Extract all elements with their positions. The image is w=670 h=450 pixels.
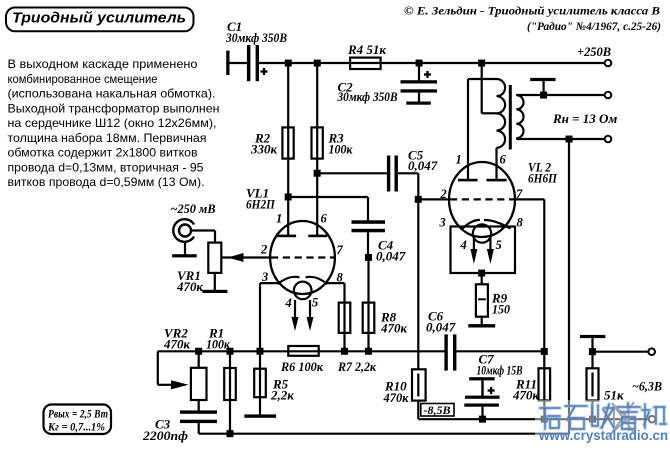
svg-text:6Н2П: 6Н2П xyxy=(246,197,276,212)
VL2 heater arrow pin5 xyxy=(487,236,494,264)
node junction R8 bottom xyxy=(365,348,372,355)
node junction VL1 pin7/R8 xyxy=(365,254,372,261)
svg-text:30мкф 350В: 30мкф 350В xyxy=(337,89,398,104)
svg-text:толщина набора 18мм. Первичная: толщина набора 18мм. Первичная xyxy=(8,131,207,145)
VL1 heater arrow pin4 xyxy=(292,300,299,331)
svg-text:витков провода d=0,59мм (13 Ом: витков провода d=0,59мм (13 Ом). xyxy=(8,175,205,189)
terminal heater top xyxy=(648,348,655,355)
node junction C7 bottom xyxy=(479,416,486,423)
svg-text:3: 3 xyxy=(439,216,446,230)
node junction C1/R2 xyxy=(285,60,292,67)
svg-text:470к: 470к xyxy=(380,321,407,336)
capacitor C3 xyxy=(142,400,217,443)
svg-text:1: 1 xyxy=(456,153,462,167)
svg-text:0,047: 0,047 xyxy=(426,320,456,335)
svg-text:провода d=0,13мм, вторичная -: провода d=0,13мм, вторичная - 95 xyxy=(8,160,204,174)
tube VL2 envelope xyxy=(449,160,558,238)
wire node to R8 xyxy=(367,258,369,352)
svg-text:6: 6 xyxy=(500,153,507,167)
label 6.3V xyxy=(632,379,662,394)
resistor R11 xyxy=(512,368,550,402)
transformer secondary winding xyxy=(516,95,523,138)
wire VR1 to ground xyxy=(214,273,216,290)
transformer primary winding xyxy=(497,79,506,148)
resistor R8 xyxy=(363,303,408,336)
svg-text:комбинированное смещение: комбинированное смещение xyxy=(8,72,158,86)
svg-text:470к: 470к xyxy=(383,390,409,405)
node junction R7 bottom xyxy=(341,348,348,355)
svg-text:0,047: 0,047 xyxy=(376,249,406,264)
ground bar under C2 xyxy=(406,102,431,105)
tube VL1 envelope xyxy=(246,186,335,295)
resistor R5 xyxy=(254,351,294,414)
resistor R3 xyxy=(312,127,353,158)
watermark overlay xyxy=(535,400,670,450)
wire cathode feedback rail xyxy=(158,350,545,352)
chassis bar above secondary xyxy=(530,78,555,95)
node junction secondary top xyxy=(540,92,547,99)
wire primary top to VL2 pin1 xyxy=(468,79,497,179)
transformer core xyxy=(509,85,512,150)
svg-text:2: 2 xyxy=(440,187,447,201)
watermark url text xyxy=(538,428,668,443)
svg-text:~6,3В: ~6,3В xyxy=(632,379,662,394)
wire to C5 xyxy=(317,172,387,174)
svg-text:6Н6П: 6Н6П xyxy=(528,171,558,186)
svg-text:Кг = 0,7...1%: Кг = 0,7...1% xyxy=(47,420,105,434)
svg-text:R6 100к: R6 100к xyxy=(280,359,323,374)
node junction R3/C5 xyxy=(314,170,321,177)
wire R3 anode branch xyxy=(316,63,318,236)
wire C4 to grid2 node xyxy=(367,232,369,257)
svg-text:R7 2,2к: R7 2,2к xyxy=(337,359,376,374)
resistor R1 xyxy=(206,326,236,434)
node junction heater tap xyxy=(589,348,596,355)
node junction VL2 grid1 xyxy=(415,196,422,203)
node junction R2/C4 xyxy=(285,193,292,200)
VL1 heater arrow pin5 xyxy=(307,300,314,331)
wire feedback from secondary xyxy=(568,139,570,434)
ground bar under jack xyxy=(172,254,197,257)
svg-text:~250 мВ: ~250 мВ xyxy=(171,201,216,216)
label box output power xyxy=(44,405,112,435)
svg-text:3: 3 xyxy=(261,270,268,284)
svg-text:470к: 470к xyxy=(176,279,203,294)
title box xyxy=(6,8,194,32)
svg-text:Выходной трансформатор выполне: Выходной трансформатор выполнен xyxy=(8,101,220,115)
capacitor C5 xyxy=(387,148,438,192)
header credit xyxy=(404,5,661,34)
watermark logo diode xyxy=(611,402,634,434)
terminal +250V xyxy=(577,44,611,66)
svg-text:-8,5В: -8,5В xyxy=(424,403,451,417)
VL1 anode plate pin6 xyxy=(308,235,327,238)
svg-text:0,047: 0,047 xyxy=(408,158,438,173)
resistor R4 xyxy=(347,42,386,69)
VL1 anode plate pin1 xyxy=(277,235,296,238)
wire R10 to bias rail xyxy=(417,401,419,420)
resistor R10 xyxy=(383,369,426,405)
node junction R1 top xyxy=(226,348,233,355)
wire R2 anode branch xyxy=(287,63,289,236)
VL2 cathode arcs xyxy=(463,220,511,229)
terminal output bottom xyxy=(605,136,612,143)
node junction R5 top xyxy=(256,348,263,355)
svg-text:4: 4 xyxy=(460,238,467,252)
svg-text:R4 51к: R4 51к xyxy=(347,42,386,57)
node junction VL2 cathode box bottom xyxy=(478,270,485,277)
svg-text:5: 5 xyxy=(312,296,318,310)
svg-text:В выходном каскаде применено: В выходном каскаде применено xyxy=(8,57,198,71)
VL1 heater circle xyxy=(294,282,312,300)
wire secondary bottom output xyxy=(516,138,605,140)
svg-text:+250В: +250В xyxy=(577,44,611,59)
wire VL2 pin7 branch xyxy=(515,199,544,419)
capacitor C6 xyxy=(426,309,456,371)
terminal heater bottom xyxy=(649,416,656,423)
potentiometer VR2 xyxy=(163,326,206,401)
VL2 anode plate pin1 xyxy=(458,179,478,182)
terminal output top xyxy=(605,92,612,99)
VL1 pin numbers xyxy=(260,212,344,311)
resistor R7 xyxy=(337,303,376,374)
wire VL1 pin8 to R7 xyxy=(326,283,345,351)
node junction pin7/C6/R11 xyxy=(541,348,548,355)
svg-text:Триодный усилитель: Триодный усилитель xyxy=(12,10,186,27)
svg-text:100к: 100к xyxy=(329,142,353,157)
node junction 51k bottom xyxy=(589,416,596,423)
wire top supply rail xyxy=(259,62,605,64)
ground bar under R5 xyxy=(244,414,276,417)
wire primary bottom to VL2 pin6 xyxy=(495,148,497,179)
svg-text:150: 150 xyxy=(492,302,510,317)
svg-text:5: 5 xyxy=(496,238,502,252)
svg-text:2200пф: 2200пф xyxy=(142,428,188,443)
capacitor C4 xyxy=(352,220,406,263)
svg-text:7: 7 xyxy=(337,243,344,257)
node junction R1 bottom xyxy=(226,430,233,437)
resistor R6 xyxy=(280,346,323,374)
wire VL2 grid1 lead xyxy=(418,198,450,200)
VL2 grid dashed line xyxy=(450,198,514,200)
wire VL1 pin3 to R5 xyxy=(260,283,280,351)
ground bar under VR1 xyxy=(202,290,227,293)
svg-text:обмотка содержит 2х1800 витко: обмотка содержит 2х1800 витков xyxy=(8,146,198,160)
wire secondary top output xyxy=(516,94,605,96)
VR1 wiper arrow to VL1 grid xyxy=(221,253,270,262)
svg-text:Rн = 13 Ом: Rн = 13 Ом xyxy=(552,111,617,126)
capacitor C1 xyxy=(225,19,287,81)
wire primary centre tap xyxy=(482,63,497,113)
capacitor C2 xyxy=(337,63,437,104)
svg-text:10мкф 15В: 10мкф 15В xyxy=(477,363,523,378)
svg-text:© Е. Зельдин - Триодный усилит: © Е. Зельдин - Триодный усилитель класса… xyxy=(404,5,660,18)
chassis bar right xyxy=(580,335,605,368)
wire heater bias rail xyxy=(418,418,648,420)
svg-text:100к: 100к xyxy=(206,337,230,352)
node junction R3 xyxy=(314,60,321,67)
node junction C2 xyxy=(416,60,423,67)
svg-text:2: 2 xyxy=(260,243,267,257)
node junction VR2 top xyxy=(195,348,202,355)
resistor R2 xyxy=(250,127,294,158)
node junction transformer tap xyxy=(478,60,485,67)
svg-text:на сердечнике Ш12 (окно 12х26м: на сердечнике Ш12 (окно 12х26мм), xyxy=(8,116,217,130)
node junction secondary bottom xyxy=(566,136,573,143)
svg-text:(использована накальная обмотк: (использована накальная обмотка). xyxy=(8,87,216,101)
svg-text:8: 8 xyxy=(517,216,524,230)
svg-text:("Радио" №4/1967, с.25-26): ("Радио" №4/1967, с.25-26) xyxy=(527,21,661,33)
svg-text:6: 6 xyxy=(321,212,328,226)
wire C5 to VL2 grid xyxy=(398,173,418,199)
label box -8,5V xyxy=(421,403,454,417)
svg-text:4: 4 xyxy=(285,296,292,310)
svg-text:470к: 470к xyxy=(163,337,190,352)
svg-text:www.crystalradio.cn: www.crystalradio.cn xyxy=(538,428,668,443)
resistor R9 xyxy=(476,273,511,324)
node junction R11 bottom xyxy=(541,416,548,423)
watermark CJK text xyxy=(540,403,666,429)
capacitor C7 xyxy=(464,352,522,420)
VL2 anode plate pin6 xyxy=(487,179,507,182)
potentiometer VR1 xyxy=(176,243,221,294)
VL2 heater arrow pin4 xyxy=(470,236,477,264)
VL1 cathode arcs xyxy=(278,277,327,284)
VL1 grid dashed line xyxy=(271,256,334,258)
VL2 heater circle xyxy=(473,224,491,242)
svg-text:2,2к: 2,2к xyxy=(270,388,294,403)
wire C4 branch xyxy=(288,197,368,220)
wire bottom feedback rail xyxy=(199,433,569,435)
svg-text:330к: 330к xyxy=(250,142,278,157)
description paragraph xyxy=(8,57,220,189)
svg-text:1: 1 xyxy=(276,212,282,226)
ground bar under R9 xyxy=(468,324,495,327)
wire VR2 wiper elbow xyxy=(158,351,189,389)
svg-text:30мкф 350В: 30мкф 350В xyxy=(225,30,287,45)
resistor 51k xyxy=(587,368,625,419)
label Rn xyxy=(552,111,617,126)
input jack xyxy=(171,201,216,254)
VL2 cathode box xyxy=(451,227,516,274)
VL2 pin numbers xyxy=(439,153,524,253)
wire heater top lead xyxy=(593,351,649,353)
wire grid1 to R10 xyxy=(417,199,419,369)
svg-text:Рвых = 2,5 Вт: Рвых = 2,5 Вт xyxy=(48,407,108,421)
